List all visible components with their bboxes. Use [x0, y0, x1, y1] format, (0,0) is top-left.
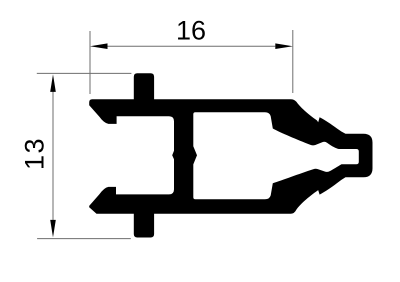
svg-text:16: 16: [176, 16, 206, 46]
svg-text:13: 13: [20, 137, 50, 170]
